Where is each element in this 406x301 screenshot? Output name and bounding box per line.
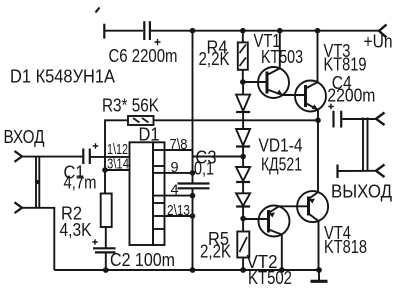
capacitor C4 (327, 73, 375, 128)
svg-text:ВХОД: ВХОД (4, 127, 45, 147)
node top rail R4 (240, 28, 246, 34)
svg-text:2,2K: 2,2K (199, 49, 230, 69)
wire top rail (151, 30, 380, 32)
diode VD1 (236, 82, 250, 112)
terminal input upper (15, 151, 23, 162)
terminal +Un (364, 25, 393, 52)
wire pin 9 (165, 172, 193, 174)
resistor R4 (199, 31, 248, 82)
svg-text:КД521: КД521 (261, 155, 302, 175)
scan artifact apostrophe (96, 8, 100, 13)
wire vertical x192 upper (192, 31, 194, 184)
wire C6 left (105, 30, 143, 32)
IC D1 box (130, 125, 165, 246)
terminal bar output return (336, 165, 338, 179)
node top rail x192 (190, 28, 196, 34)
wire pin 4 (165, 195, 193, 197)
node VT2 collector bottom (279, 267, 285, 273)
resistor R5 (200, 219, 249, 271)
node C2 bottom (103, 267, 109, 273)
wire C1 to pin1/12 (91, 156, 130, 158)
wire VT1 emitter to VT3 base (283, 94, 305, 96)
wire bottom rail (54, 269, 319, 271)
diode VD4 (236, 182, 250, 219)
node x192 bottom (190, 267, 196, 273)
diode VD2 (236, 112, 250, 157)
wire input upper (22, 156, 83, 158)
wire pin 3/14 (105, 169, 130, 171)
svg-text:KT819: KT819 (324, 55, 367, 75)
node top rail VT1 collector (277, 28, 283, 34)
svg-text:+Un: +Un (364, 32, 393, 52)
svg-text:KT503: KT503 (261, 47, 303, 67)
resistor R2 (60, 194, 112, 248)
terminal bar C6 left (103, 24, 105, 39)
svg-text:C6 2200m: C6 2200m (109, 46, 178, 66)
node ground (316, 267, 322, 273)
svg-text:2200m: 2200m (327, 86, 375, 106)
svg-text:C2 100m: C2 100m (110, 250, 175, 270)
capacitor C2 (92, 239, 175, 270)
transistor VT2 (243, 206, 292, 289)
node diode mid (240, 154, 246, 160)
terminal input lower (15, 202, 23, 213)
node R5 bottom (240, 267, 246, 273)
node pin2/13 (190, 213, 196, 219)
node output (315, 118, 321, 124)
cable double line input (36, 157, 40, 208)
node pin4 (190, 193, 196, 199)
ground symbol (311, 270, 328, 281)
svg-text:R3* 56K: R3* 56K (102, 96, 159, 116)
svg-text:2,2K: 2,2K (200, 242, 231, 262)
svg-text:VD1-4: VD1-4 (259, 136, 303, 156)
diode VD3 (236, 157, 250, 183)
cable double line output (363, 118, 368, 172)
node top rail VT3 collector (315, 28, 321, 34)
transistor VT3 (295, 31, 367, 120)
transistor VT4 (297, 120, 367, 270)
wire input lower (22, 208, 54, 270)
capacitor C6 (109, 21, 178, 66)
node diodes/VT2 base (240, 216, 246, 222)
wire mid node to pin7/8 line (193, 156, 244, 158)
node pin3/14 (102, 167, 108, 173)
svg-text:D1 К548УН1А: D1 К548УН1А (10, 67, 115, 87)
node pin9 (190, 170, 196, 176)
svg-text:ВЫХОД: ВЫХОД (331, 182, 392, 202)
capacitor C1 (64, 143, 99, 192)
wire pin 2/13 (165, 215, 193, 217)
svg-text:4,7m: 4,7m (64, 173, 97, 193)
terminal output lower (376, 165, 385, 178)
node R4/VT1/diodes (240, 79, 246, 85)
transistor VT1 (243, 31, 303, 98)
svg-text:KT818: KT818 (324, 237, 367, 257)
wire C4 to output cable (342, 118, 375, 120)
wire output return (338, 170, 376, 172)
terminal output upper (376, 113, 385, 126)
resistor R3 (102, 96, 318, 194)
svg-text:KT502: KT502 (248, 268, 292, 288)
wire pin 7/8 (165, 149, 193, 151)
svg-text:4,3K: 4,3K (60, 220, 92, 240)
capacitor C3 (178, 148, 217, 189)
wire vertical x192 lower (192, 188, 194, 270)
wire VT2 emitter to VT4 base (279, 205, 309, 207)
svg-text:0,1: 0,1 (194, 159, 214, 179)
